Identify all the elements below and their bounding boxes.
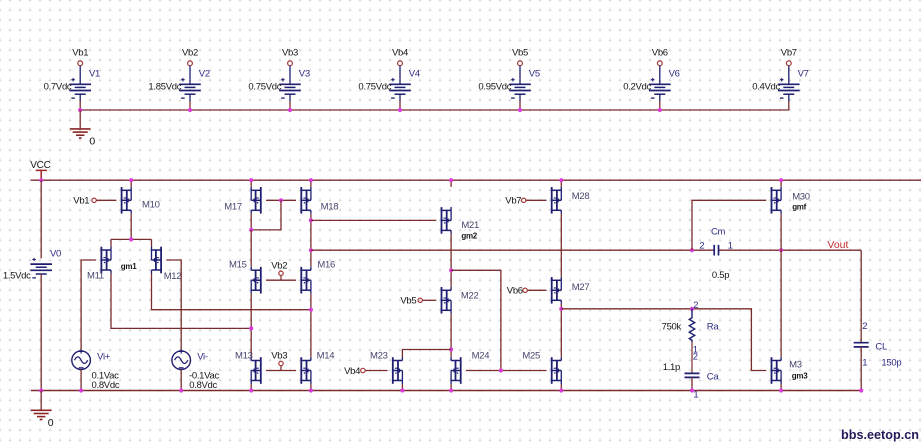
- wire: [519, 94, 521, 101]
- svg-text:Vb2: Vb2: [271, 261, 287, 272]
- wire: [399, 94, 401, 101]
- wire: [527, 289, 546, 291]
- wire M12 drain down: [152, 274, 311, 310]
- wire gate bus M13 M14: [266, 370, 296, 372]
- terminal Vb1: [73, 196, 96, 207]
- svg-text:M14: M14: [317, 351, 335, 362]
- wire M15 source column: [250, 294, 252, 357]
- svg-text:V3: V3: [299, 69, 310, 80]
- capacitor Ca 1.1p: [663, 362, 720, 400]
- junction: [518, 108, 522, 112]
- svg-text:Vb6: Vb6: [652, 47, 668, 58]
- wire Vout net right: [719, 249, 862, 251]
- svg-text:gm2: gm2: [461, 232, 477, 241]
- svg-text:M17: M17: [224, 201, 242, 212]
- svg-text:V7: V7: [798, 69, 809, 80]
- svg-text:Vout: Vout: [827, 239, 848, 251]
- svg-text:V4: V4: [409, 69, 420, 80]
- svg-text:0.4Vdc: 0.4Vdc: [752, 82, 780, 93]
- wire M30 gate loop: [692, 200, 766, 250]
- ground 0: [70, 129, 96, 148]
- svg-text:M16: M16: [317, 259, 335, 270]
- junction: [398, 108, 402, 112]
- junction: [39, 178, 43, 182]
- transistor M25: [522, 351, 561, 384]
- dc source V3 0.75Vdc: [248, 69, 309, 99]
- svg-text:V5: V5: [529, 69, 540, 80]
- svg-text:2: 2: [693, 352, 698, 363]
- wire: [365, 370, 388, 372]
- svg-text:V2: V2: [199, 69, 210, 80]
- power VCC: [30, 160, 50, 180]
- svg-text:VCC: VCC: [30, 160, 50, 171]
- transistor M30: [772, 187, 810, 214]
- svg-text:V0: V0: [50, 248, 61, 259]
- wire: [450, 180, 452, 187]
- wire: [130, 180, 132, 187]
- wire: [310, 180, 312, 187]
- wire: [560, 180, 562, 187]
- junction: [249, 326, 253, 330]
- svg-text:M13: M13: [235, 351, 253, 362]
- dc source V6 0.2Vdc: [623, 69, 679, 99]
- wire: [310, 384, 312, 391]
- svg-text:M11: M11: [87, 271, 104, 282]
- wire: [250, 230, 252, 267]
- wire: [180, 370, 182, 391]
- svg-text:2: 2: [862, 321, 867, 332]
- junction: [249, 178, 253, 182]
- transistor M13: [235, 351, 261, 384]
- svg-text:bbs.eetop.cn: bbs.eetop.cn: [841, 427, 919, 442]
- junction: [309, 388, 313, 392]
- svg-text:Vi+: Vi+: [97, 352, 111, 363]
- svg-text:Cm: Cm: [711, 226, 726, 237]
- wire M10 drain to tail: [130, 214, 132, 240]
- transistor M28: [552, 187, 590, 214]
- junction: [779, 248, 783, 252]
- wire ground drop: [79, 110, 81, 129]
- junction: [288, 108, 292, 112]
- node tail junction: [129, 237, 133, 241]
- wire Vb3 stem: [280, 366, 282, 371]
- svg-text:1: 1: [862, 358, 867, 369]
- wire M18 to M21 gate: [311, 219, 436, 221]
- svg-text:M22: M22: [461, 291, 479, 302]
- wire: [788, 94, 790, 101]
- wire ground drop: [40, 391, 42, 411]
- wire ground rail: [31, 390, 861, 392]
- junction: [39, 388, 43, 392]
- wire: [289, 94, 291, 101]
- wire M30 source to output: [780, 214, 782, 250]
- svg-text:Vb1: Vb1: [73, 196, 89, 207]
- svg-text:0: 0: [89, 135, 95, 147]
- junction: [449, 268, 453, 272]
- transistor M27: [552, 277, 590, 304]
- svg-text:M30: M30: [792, 192, 810, 203]
- terminal Vb4: [344, 366, 365, 377]
- svg-text:Vb3: Vb3: [271, 350, 287, 361]
- svg-text:Vb7: Vb7: [505, 196, 521, 207]
- wire mid node to M3 gate: [561, 309, 766, 371]
- wire: [79, 94, 81, 101]
- dc source V2 1.85Vdc: [148, 69, 209, 99]
- svg-text:gm3: gm3: [792, 371, 808, 380]
- wire bias bus: [80, 109, 789, 111]
- ac source Vi+: [72, 349, 120, 391]
- wire M16 source column: [310, 294, 312, 357]
- wire M11 gate to Vi+: [81, 260, 96, 351]
- wire: [151, 239, 153, 246]
- wire: [780, 180, 782, 187]
- svg-text:M23: M23: [370, 351, 388, 362]
- svg-text:1.85Vdc: 1.85Vdc: [148, 82, 181, 93]
- junction: [309, 248, 313, 252]
- svg-text:gmf: gmf: [792, 203, 806, 212]
- transistor M12: [152, 247, 182, 283]
- node Vb5: [512, 47, 528, 84]
- svg-text:750k: 750k: [662, 322, 682, 333]
- wire: [691, 377, 693, 390]
- dc source V7 0.4Vdc: [752, 69, 808, 99]
- wire: [659, 94, 661, 101]
- svg-text:Vb5: Vb5: [512, 47, 528, 58]
- junction: [690, 388, 694, 392]
- resistor Ra 750k: [662, 300, 720, 363]
- junction: [690, 307, 694, 311]
- svg-text:Vb4: Vb4: [392, 47, 408, 58]
- wire: [80, 370, 82, 391]
- node Vb6: [652, 47, 668, 84]
- capacitor Cm 0.5p: [699, 226, 732, 280]
- svg-text:M27: M27: [572, 282, 590, 293]
- svg-text:M24: M24: [472, 351, 490, 362]
- svg-text:Vb1: Vb1: [72, 47, 88, 58]
- svg-text:M10: M10: [142, 199, 160, 210]
- wire M27 source column: [560, 304, 562, 357]
- ground 0: [31, 410, 54, 429]
- transistor M22: [442, 287, 479, 314]
- wire M28 to M27: [560, 214, 562, 277]
- wire M23 drain: [402, 350, 451, 358]
- terminal: [279, 271, 283, 275]
- junction: [309, 178, 313, 182]
- svg-text:0: 0: [48, 417, 54, 429]
- transistor M24: [451, 351, 489, 384]
- wire to M24 gate: [451, 270, 501, 370]
- wire: [40, 180, 42, 258]
- svg-text:0.7Vdc: 0.7Vdc: [44, 82, 72, 93]
- svg-text:Vi-: Vi-: [197, 352, 208, 363]
- junction: [559, 178, 563, 182]
- wire VCC rail: [31, 179, 921, 181]
- transistor M16: [301, 259, 335, 293]
- wire Vout net: [311, 249, 714, 251]
- svg-text:M12: M12: [164, 271, 182, 282]
- junction: [559, 307, 563, 311]
- svg-text:Vb3: Vb3: [282, 47, 298, 58]
- junction: [779, 178, 783, 182]
- svg-text:0.75Vdc: 0.75Vdc: [248, 82, 281, 93]
- svg-text:1: 1: [728, 240, 733, 251]
- node Vb2: [182, 47, 198, 84]
- dc source V4 0.75Vdc: [358, 69, 419, 99]
- wire: [40, 274, 42, 391]
- wire diode connection: [251, 200, 281, 230]
- wire gate bus M24 M25: [466, 370, 547, 372]
- transistor M15: [229, 259, 261, 293]
- wire M21 source column: [450, 234, 452, 287]
- wire: [401, 384, 403, 391]
- wire: [860, 347, 862, 391]
- junction: [859, 388, 863, 392]
- wire Vb2 stem: [280, 276, 282, 281]
- wire M11 drain down: [111, 274, 251, 329]
- svg-text:150p: 150p: [881, 358, 901, 369]
- wire M22 source column: [450, 314, 452, 357]
- wire M18 drain column: [310, 214, 312, 267]
- svg-text:0.8Vdc: 0.8Vdc: [92, 380, 120, 391]
- wire: [250, 384, 252, 391]
- svg-text:1: 1: [693, 389, 698, 400]
- svg-text:M15: M15: [229, 259, 247, 270]
- junction: [658, 108, 662, 112]
- svg-text:1.5Vdc: 1.5Vdc: [3, 271, 31, 282]
- svg-text:V1: V1: [89, 69, 100, 80]
- wire gate bus M17 M18: [266, 199, 296, 201]
- transistor M21: [442, 207, 479, 241]
- svg-text:M18: M18: [321, 201, 339, 212]
- transistor M11: [87, 247, 111, 282]
- svg-text:M3: M3: [789, 360, 802, 371]
- wire output to M3: [780, 250, 782, 357]
- svg-text:0.8Vdc: 0.8Vdc: [189, 380, 217, 391]
- wire: [189, 94, 191, 101]
- junction: [179, 388, 183, 392]
- junction: [309, 218, 313, 222]
- ac source Vi-: [172, 349, 220, 391]
- capacitor CL 150p: [854, 321, 902, 368]
- junction: [78, 108, 82, 112]
- dc source V5 0.95Vdc: [478, 69, 539, 99]
- svg-text:Vb5: Vb5: [400, 296, 416, 307]
- wire: [422, 299, 436, 301]
- wire: [780, 384, 782, 391]
- transistor M14: [301, 351, 334, 384]
- terminal: [279, 361, 283, 365]
- junction: [400, 388, 404, 392]
- wire Vb1 to M10 gate: [96, 199, 116, 201]
- svg-text:Ca: Ca: [707, 371, 720, 382]
- wire: [560, 384, 562, 391]
- wire: [526, 199, 547, 201]
- node Vb4: [392, 47, 408, 84]
- junction: [249, 228, 253, 232]
- transistor M3: [772, 357, 809, 384]
- svg-text:Ra: Ra: [707, 322, 720, 333]
- wire Vout to CL: [860, 250, 862, 343]
- svg-text:M21: M21: [461, 220, 479, 231]
- wire: [250, 180, 252, 187]
- svg-text:2: 2: [693, 300, 698, 311]
- junction: [559, 388, 563, 392]
- svg-text:0.75Vdc: 0.75Vdc: [358, 82, 391, 93]
- wire: [110, 239, 112, 246]
- wire tail node: [111, 238, 152, 240]
- terminal Vb5: [400, 296, 422, 307]
- transistor M17: [224, 187, 260, 214]
- node Vb3: [282, 47, 298, 84]
- svg-text:M28: M28: [572, 191, 590, 202]
- wire gate bus M15 M16: [266, 279, 296, 281]
- transistor M18: [301, 187, 338, 214]
- svg-text:1.1p: 1.1p: [663, 362, 680, 373]
- junction: [249, 388, 253, 392]
- svg-text:2: 2: [699, 241, 704, 252]
- svg-text:Vb7: Vb7: [781, 47, 797, 58]
- node Vb7: [781, 47, 797, 84]
- wire: [691, 342, 693, 373]
- dc source V1 0.7Vdc: [44, 69, 100, 99]
- svg-text:M25: M25: [522, 351, 540, 362]
- junction: [779, 388, 783, 392]
- junction: [449, 178, 453, 182]
- terminal Vb6: [507, 286, 528, 297]
- node Vb1: [72, 47, 88, 84]
- node gate bus junction: [279, 198, 283, 202]
- wire M17 drain: [250, 214, 252, 230]
- svg-text:0.2Vdc: 0.2Vdc: [623, 82, 651, 93]
- junction: [499, 368, 503, 372]
- junction: [449, 347, 453, 351]
- junction: [309, 308, 313, 312]
- svg-text:0.5p: 0.5p: [712, 270, 729, 281]
- terminal Vb7: [505, 196, 526, 207]
- svg-text:gm1: gm1: [121, 262, 137, 271]
- dc source V0 1.5Vdc: [3, 248, 61, 281]
- transistor M23: [370, 351, 402, 384]
- transistor M10: [122, 187, 160, 214]
- svg-text:Vb6: Vb6: [507, 286, 523, 297]
- svg-text:V6: V6: [669, 69, 680, 80]
- svg-text:0.95Vdc: 0.95Vdc: [478, 82, 511, 93]
- wire M12 gate to Vi-: [166, 260, 181, 351]
- junction: [129, 178, 133, 182]
- svg-text:Vb4: Vb4: [344, 366, 360, 377]
- junction: [449, 388, 453, 392]
- junction: [690, 248, 694, 252]
- junction: [188, 108, 192, 112]
- svg-text:Vb2: Vb2: [182, 47, 198, 58]
- wire: [450, 384, 452, 391]
- svg-text:CL: CL: [875, 341, 887, 352]
- junction: [79, 388, 83, 392]
